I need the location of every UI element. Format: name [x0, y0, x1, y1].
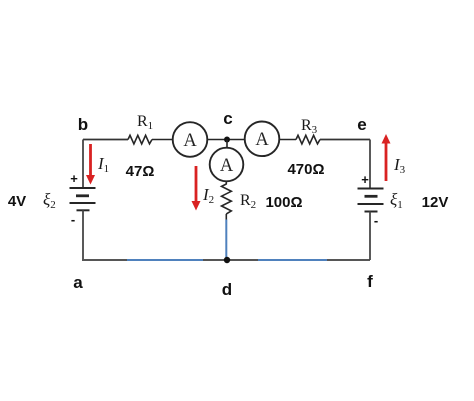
- resistor R3: [296, 135, 320, 144]
- wire battery E1 to corner f: [369, 212, 371, 261]
- battery E2 plate long lower: [70, 202, 96, 204]
- svg-text:R2: R2: [240, 192, 256, 211]
- svg-text:I3: I3: [393, 155, 406, 176]
- battery E2 plate long top: [70, 187, 96, 189]
- wire bottom rail blue segment right: [258, 259, 328, 261]
- svg-text:A: A: [183, 131, 197, 151]
- svg-text:I1: I1: [97, 154, 109, 175]
- svg-text:-: -: [71, 212, 75, 227]
- resistor R1: [128, 135, 152, 144]
- battery E1 plate short thick: [365, 195, 378, 198]
- svg-text:470Ω: 470Ω: [287, 161, 324, 178]
- wire bottom rail blue segment left: [127, 259, 204, 261]
- svg-text:I2: I2: [202, 185, 214, 206]
- battery E2 plate short thick: [76, 194, 89, 197]
- svg-text:a: a: [73, 273, 83, 292]
- svg-text:d: d: [222, 280, 232, 299]
- svg-text:+: +: [70, 171, 78, 186]
- wire A1 to A2 through node c: [207, 139, 245, 141]
- svg-text:ξ2: ξ2: [43, 190, 56, 211]
- node c junction dot: [224, 137, 230, 143]
- svg-text:4V: 4V: [8, 193, 26, 210]
- battery E1 plate short bottom: [365, 211, 378, 213]
- battery E2 plate short bottom: [77, 209, 90, 211]
- wire blue segment R2 to node d: [225, 220, 227, 261]
- wire bottom rail gray segment at node d: [203, 259, 259, 261]
- wire A2 to R3: [279, 139, 296, 141]
- svg-text:ξ1: ξ1: [390, 190, 403, 211]
- battery E1 plate long lower: [358, 203, 384, 205]
- wire R1 to ammeter A1: [152, 139, 173, 141]
- wire bottom rail a gray segment: [82, 259, 128, 261]
- svg-text:A: A: [220, 156, 234, 176]
- svg-text:100Ω: 100Ω: [265, 194, 302, 211]
- wire left rail b down to battery: [82, 140, 84, 189]
- node d junction dot: [224, 257, 230, 263]
- svg-text:c: c: [223, 109, 232, 128]
- current arrow I1: [86, 144, 95, 185]
- wire R2 bottom stub: [225, 214, 227, 220]
- wire stub node c to ammeter A3: [226, 140, 228, 148]
- wire battery E2 to corner a: [82, 210, 84, 260]
- ammeter A3: [210, 148, 244, 182]
- wire R3 to corner e: [320, 139, 370, 141]
- resistor R2: [222, 184, 232, 214]
- current arrow I2: [192, 166, 201, 211]
- svg-text:47Ω: 47Ω: [126, 163, 155, 180]
- svg-text:e: e: [357, 115, 366, 134]
- wire bottom rail gray segment to f: [327, 259, 370, 261]
- svg-text:+: +: [361, 172, 369, 187]
- battery E1 plate long top: [358, 188, 384, 190]
- wire A3 to R2: [225, 181, 227, 184]
- svg-text:b: b: [78, 115, 88, 134]
- svg-text:R1: R1: [137, 113, 153, 132]
- wire top rail left segment b to R1: [83, 139, 128, 141]
- svg-text:-: -: [374, 213, 378, 228]
- svg-text:f: f: [367, 272, 373, 291]
- svg-text:A: A: [255, 130, 269, 150]
- current arrow I3: [382, 134, 391, 181]
- wire right rail e down to battery: [369, 140, 371, 189]
- svg-text:R3: R3: [301, 117, 318, 136]
- svg-text:12V: 12V: [422, 194, 449, 211]
- ammeter A2: [245, 122, 280, 157]
- op: ammeter A1: [173, 122, 208, 157]
